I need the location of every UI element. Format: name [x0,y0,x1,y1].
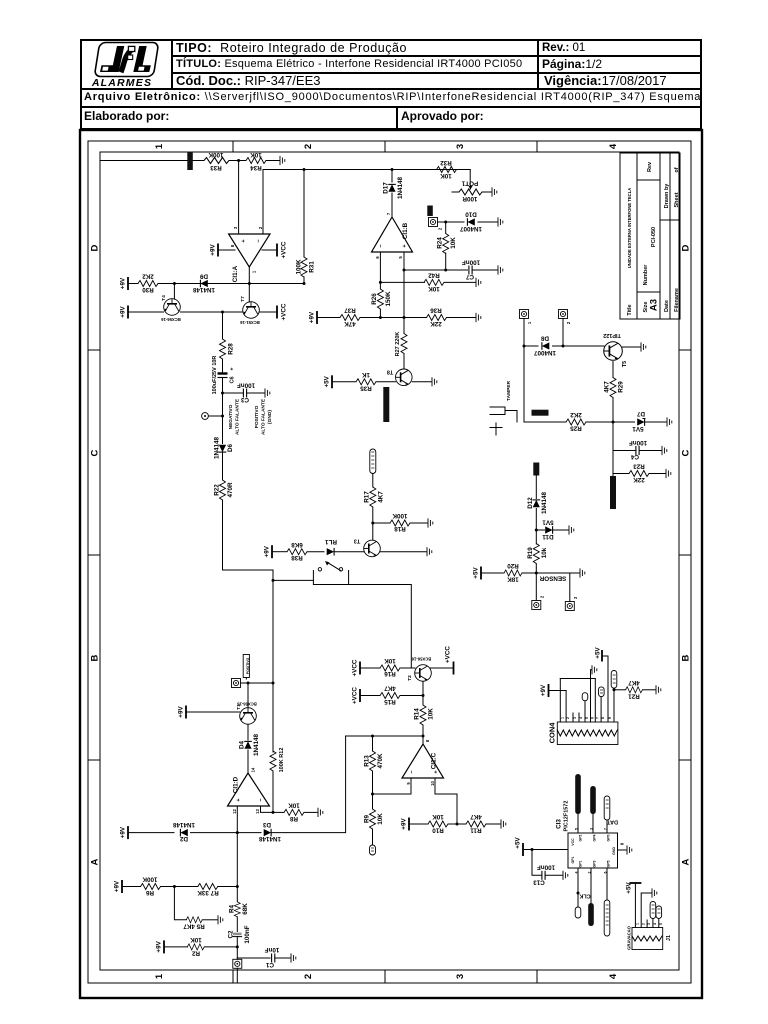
svg-text:+5V: +5V [626,882,633,894]
svg-text:R4: R4 [229,904,236,913]
svg-text:100K: 100K [296,259,303,275]
svg-text:4: 4 [579,717,583,719]
wire long to relay [223,500,274,580]
svg-text:1N4148: 1N4148 [258,835,281,842]
svg-text:POT1: POT1 [461,180,478,187]
resistor R31 [303,170,305,258]
resistor R12 [270,751,276,771]
svg-text:TAMPER: TAMPER [506,381,512,401]
diode RL1 [327,548,334,556]
tamper switch [490,407,517,435]
svg-text:470K: 470K [377,753,384,769]
svg-text:10K: 10K [450,237,457,249]
resistor R42 [424,279,444,285]
resistor R10 [428,821,448,827]
svg-text:Number: Number [643,264,649,286]
header row 2 [176,58,522,70]
wire [222,453,224,480]
svg-text:1N4148: 1N4148 [192,286,215,293]
svg-text:4: 4 [608,143,619,149]
svg-text:R13: R13 [364,755,371,767]
power +9V T4 [128,311,164,313]
svg-text:Drawn by: Drawn by [664,183,670,209]
wire C1 branch [236,937,238,960]
diode D9 [200,280,207,288]
svg-text:R2: R2 [191,949,200,956]
svg-text:−: − [410,770,416,773]
resistor R30 [128,283,138,285]
svg-text:GP5: GP5 [607,860,611,867]
net label capsule A [582,693,588,701]
svg-text:C6: C6 [230,376,236,383]
svg-text:1N4148: 1N4148 [214,436,221,459]
svg-text:A: A [681,858,692,865]
svg-text:+VCC: +VCC [445,646,452,663]
svg-text:R33: R33 [210,164,222,171]
svg-text:Date: Date [664,300,670,312]
svg-text:−: − [379,244,385,247]
svg-text:7: 7 [595,717,599,719]
svg-text:100K R12: 100K R12 [279,748,285,773]
wire [222,416,224,444]
power +9V R38 [271,545,273,558]
svg-text:100R: 100R [462,195,478,202]
diode D17 [391,170,393,183]
wire pin5 net [404,269,467,271]
header row 1 [176,41,407,55]
svg-text:R15: R15 [384,698,396,705]
svg-text:R28: R28 [228,343,235,355]
wire D3 to corner [272,736,346,833]
svg-text:R21: R21 [628,692,640,699]
svg-text:4: 4 [653,923,657,925]
svg-text:10K: 10K [377,813,384,825]
svg-text:3: 3 [647,923,651,925]
svg-text:B: B [681,654,692,661]
svg-text:CON4: CON4 [548,722,557,744]
header row 4 [84,91,701,103]
diode D6 [219,445,227,452]
svg-text:8: 8 [620,842,625,845]
svg-text:C3: C3 [240,396,249,403]
resistor R25 [566,419,586,425]
svg-text:R20: R20 [507,562,519,569]
svg-text:R14: R14 [414,708,421,720]
transistor T7 [243,302,260,319]
svg-text:C13: C13 [533,879,545,886]
svg-text:R38: R38 [291,554,303,561]
svg-text:Title: Title [627,304,633,315]
wire base T4 [173,284,175,300]
svg-text:PIC12F1572: PIC12F1572 [564,801,570,832]
svg-text:150K: 150K [385,291,392,307]
svg-text:10K: 10K [384,657,396,664]
net label capsule C [611,671,617,689]
wire pin6 R42 rail [380,281,424,283]
wire to pad3 [536,573,570,602]
svg-text:BCX51-16: BCX51-16 [240,320,260,325]
svg-text:5: 5 [574,828,578,830]
svg-text:BCX56-16: BCX56-16 [161,317,181,322]
resistor R32 [437,167,457,173]
wire T5 emitter [612,362,614,378]
svg-text:10K: 10K [288,802,300,809]
svg-text:5: 5 [585,717,589,719]
wire pin5 [403,252,405,270]
svg-text:R30: R30 [142,286,154,293]
capacitor C7 [469,266,472,275]
svg-text:CI1:D: CI1:D [233,776,240,793]
svg-text:10K: 10K [432,813,444,820]
svg-text:3: 3 [573,596,578,599]
svg-text:3: 3 [455,974,466,979]
pad 1 [520,310,529,319]
svg-text:100nF: 100nF [629,439,647,446]
logo letter L [133,46,151,72]
svg-text:A: A [90,858,101,865]
wire T3 collector [372,523,374,540]
node junction R2 [236,945,239,948]
wire emitter rail [181,311,243,313]
svg-text:4K7: 4K7 [377,491,384,503]
resistor R33 [204,158,229,164]
pad bottom [233,959,242,968]
pad POSITIVO [232,679,241,688]
resistor R20 [504,570,522,576]
svg-text:+: + [230,367,236,370]
IC pin names [571,834,616,867]
resistor R22 [220,480,226,500]
svg-text:+9V: +9V [120,826,127,838]
border zone frame [100,152,679,970]
svg-text:3: 3 [233,226,238,229]
op-amp CI1:A [229,234,270,267]
ground PIC [618,849,627,851]
svg-text:D17: D17 [383,182,390,194]
wire relay to T2 [349,585,415,669]
svg-text:100K: 100K [208,151,224,158]
svg-text:1: 1 [154,143,165,149]
svg-text:R35: R35 [360,384,372,391]
ground T3 [381,551,427,553]
svg-text:100nF: 100nF [462,259,480,266]
svg-text:9: 9 [406,782,411,785]
svg-text:Rev: Rev [647,161,653,172]
svg-text:D11: D11 [542,533,554,540]
resistor R5 [186,917,202,923]
svg-text:47K: 47K [344,320,356,327]
svg-text:5V1: 5V1 [542,519,554,526]
svg-text:4K7: 4K7 [384,685,396,692]
svg-text:10nF: 10nF [265,946,280,953]
svg-text:100nF: 100nF [244,925,251,943]
node junction [221,392,224,395]
resistor R9 [370,809,376,829]
svg-text:T3: T3 [354,538,360,544]
net label capsule j1a [650,902,656,919]
capacitor C2 [233,933,242,936]
svg-text:R26: R26 [371,293,378,305]
wire [222,359,224,373]
resistor R35 [356,379,376,385]
svg-text:D: D [681,244,692,251]
resistor R28 [220,339,226,359]
svg-text:D12: D12 [527,497,534,509]
power +VCC pin4 [262,249,277,251]
node junction [403,316,406,319]
resistor R38 [287,549,307,555]
zone tick marks [88,141,691,983]
node junction [237,159,240,162]
net label NEGATIVO (black) [427,206,433,217]
svg-text:+9V: +9V [156,940,163,952]
svg-text:6: 6 [591,717,595,719]
svg-text:R25: R25 [570,425,582,432]
svg-text:4K7: 4K7 [470,813,482,820]
capacitor C1 [272,954,275,963]
net label capsule clk [575,907,581,918]
resistor R15 [380,693,400,699]
svg-text:CI1:A: CI1:A [232,265,239,282]
wire mid rail [346,735,423,737]
relay contact box [313,571,348,585]
svg-text:GP2: GP2 [579,834,583,841]
wire pin12 [236,806,238,887]
svg-text:CI1:C: CI1:C [431,752,438,769]
power +VCC R16 [359,662,361,675]
svg-text:ALTO FALANTE: ALTO FALANTE [261,398,267,435]
wire [535,476,537,499]
net label capsule (black) gp4 [590,786,596,814]
svg-text:+5V: +5V [324,375,331,387]
svg-text:1: 1 [527,321,532,324]
node junction [221,311,224,314]
svg-text:R9: R9 [364,814,371,823]
wire pin10 [435,778,457,824]
svg-text:+VCC: +VCC [281,303,288,320]
svg-text:1N4148: 1N4148 [541,491,548,514]
svg-text:(GND): (GND) [267,410,273,424]
svg-text:R34: R34 [250,164,262,171]
capacitor C3 [223,392,244,394]
svg-text:GP1: GP1 [571,856,575,863]
net label (black) tamper [532,410,549,416]
pin wires bottom [577,868,579,907]
svg-text:D6: D6 [227,443,234,452]
power +9V T1 [186,711,240,713]
svg-text:5V1: 5V1 [632,425,644,432]
svg-text:3: 3 [573,717,577,719]
svg-text:10K: 10K [190,936,202,943]
svg-text:2: 2 [566,717,570,719]
logo letter J [100,46,124,72]
net label POSITIVO (boxed) [243,655,249,678]
svg-text:R42: R42 [428,272,440,279]
svg-text:of: of [674,167,680,172]
ground J1 [652,888,657,897]
pad 2 sensor [532,601,541,610]
net label capsule R9 [370,845,376,855]
svg-text:SENSOR: SENSOR [539,575,566,582]
svg-text:+VCC: +VCC [352,659,359,676]
svg-text:R11: R11 [470,827,482,834]
svg-text:ALTO FALANTE: ALTO FALANTE [235,398,241,435]
wire output net [174,283,304,285]
svg-text:R32: R32 [440,159,452,166]
svg-text:+5V: +5V [515,837,522,849]
op-amp CI1:B [372,217,413,252]
svg-text:D9: D9 [199,273,208,280]
svg-text:22K: 22K [430,320,442,327]
wire output pin1 [248,267,250,284]
svg-text:R16: R16 [384,670,396,677]
op-amp CI1:D [228,773,270,806]
resistor R4 [234,902,240,917]
svg-text:1K: 1K [362,371,371,378]
resistor R21 [613,688,616,691]
wire pin9 net [373,793,412,795]
svg-text:10K: 10K [428,285,440,292]
node junction R6/R7 [236,885,239,888]
svg-text:10k: 10k [541,547,548,558]
svg-text:+9V: +9V [120,277,127,289]
svg-text:4K7: 4K7 [628,679,640,686]
pin wires [559,679,561,723]
svg-text:10: 10 [430,781,435,786]
svg-text:C1: C1 [265,961,274,968]
net label capsule gp0 [604,796,610,820]
svg-text:T7: T7 [240,296,246,302]
svg-text:R22: R22 [214,484,221,496]
svg-text:+9V: +9V [120,306,127,318]
svg-text:C4: C4 [630,453,639,460]
svg-text:2K2: 2K2 [142,273,154,280]
diode D10 [446,221,464,223]
svg-text:RL1: RL1 [325,538,337,545]
header row 5 [84,109,169,123]
ground stub [570,572,579,574]
power +5V R20 [480,567,482,580]
power +9V R37 [316,311,318,324]
relay contact [318,568,321,571]
svg-text:7: 7 [603,828,607,830]
power +9V R10 [408,818,410,831]
svg-text:GP3: GP3 [593,860,597,867]
svg-text:100uF/25V 10R: 100uF/25V 10R [212,356,218,395]
node junction [248,282,251,285]
node junction [173,282,176,285]
logo letter f [121,49,133,73]
net label capsule (black) [588,903,594,926]
svg-text:1: 1 [636,923,640,925]
svg-text:+9V: +9V [264,545,271,557]
resistor R2 [187,944,204,950]
svg-text:T5: T5 [622,361,628,367]
net label capsule long [604,900,610,936]
ground [280,156,285,165]
power +9V pin8 [218,249,235,251]
svg-text:+9V: +9V [114,880,121,892]
svg-text:R31: R31 [309,261,316,273]
capacitor C13 [532,850,541,876]
svg-text:Filename: Filename [674,288,680,312]
wire rail to CI1:B [263,170,470,235]
svg-text:+: + [241,239,247,242]
svg-text:−: − [259,798,265,801]
svg-text:1N4007: 1N4007 [533,349,556,356]
svg-text:2: 2 [438,227,443,230]
header row 3 [176,73,321,88]
wire top rail left [100,160,204,162]
wire +9V rail CON4 [560,678,595,680]
svg-text:+9V: +9V [401,818,408,830]
diode D12 [533,500,541,507]
svg-text:2: 2 [258,226,263,229]
resistor R18 [373,522,390,524]
resistor R27 [401,334,407,354]
svg-text:D3: D3 [262,821,271,828]
wire pin5 down [403,270,405,334]
diode D7 zener [613,421,635,423]
diode D3 [264,829,271,837]
transistor T3 [364,540,381,557]
svg-text:2: 2 [566,321,571,324]
diode D2 [180,829,187,837]
svg-text:D7: D7 [636,410,645,417]
transistor T4 [164,299,181,316]
svg-text:5: 5 [659,923,663,925]
svg-text:5: 5 [398,256,403,259]
svg-text:+9V: +9V [178,706,185,718]
resistor R37 [340,315,360,321]
node junction [303,168,306,171]
power +9V R2 [163,940,165,953]
capacitor C4 [613,450,636,452]
connector CON4 box [557,722,618,745]
svg-text:POSITIVO: POSITIVO [246,657,250,674]
svg-text:D10: D10 [465,211,477,218]
resistor R17 [372,507,374,523]
svg-text:1N4148: 1N4148 [397,176,404,199]
diode D11 zener [536,529,544,531]
svg-text:D8: D8 [540,335,549,342]
node junction [391,168,394,171]
svg-text:68K: 68K [242,903,249,915]
svg-text:GP4: GP4 [593,834,597,841]
svg-text:R10: R10 [432,827,444,834]
transistor T2 [415,665,432,682]
resistor R16 [380,665,400,671]
power +5V PIC [522,843,524,856]
wire R5 branch [174,887,186,920]
op-amp CI1:C [402,744,444,778]
svg-text:R23: R23 [633,463,645,470]
svg-text:A3: A3 [649,299,660,311]
capacitor C6 [218,374,228,378]
power +9V [127,277,129,290]
svg-text:1: 1 [560,717,564,719]
resistor R7 [198,884,218,890]
svg-text:2: 2 [303,974,314,979]
power +VCC T7 [260,311,278,313]
resistor R8 [273,811,284,813]
svg-text:CI1:B: CI1:B [402,222,409,239]
svg-text:100K: 100K [392,512,408,519]
wire into relay [273,579,313,581]
svg-text:2K2: 2K2 [570,411,582,418]
wire T1 top [247,683,249,708]
net label capsule (black) gp2 [575,774,581,814]
